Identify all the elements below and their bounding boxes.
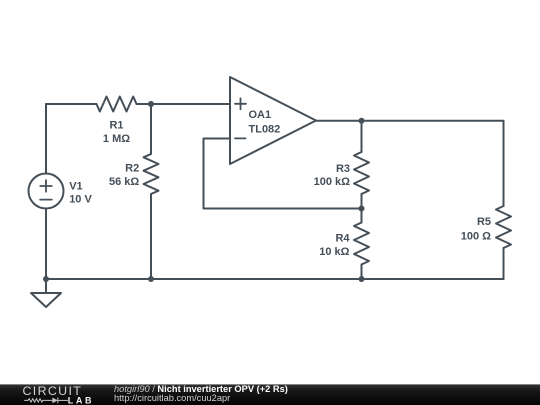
svg-text:R5: R5 — [477, 216, 491, 228]
svg-text:56 kΩ: 56 kΩ — [109, 176, 139, 188]
svg-text:100 Ω: 100 Ω — [461, 230, 491, 242]
svg-text:10 V: 10 V — [69, 194, 92, 206]
svg-text:R4: R4 — [335, 233, 350, 245]
svg-text:R3: R3 — [336, 163, 350, 175]
svg-text:http://circuitlab.com/cuu2apr: http://circuitlab.com/cuu2apr — [114, 393, 230, 403]
svg-text:100 kΩ: 100 kΩ — [314, 176, 351, 188]
svg-text:1 MΩ: 1 MΩ — [103, 133, 130, 145]
svg-text:R2: R2 — [125, 163, 139, 175]
svg-text:TL082: TL082 — [249, 123, 281, 135]
svg-text:LAB: LAB — [68, 395, 94, 405]
svg-text:OA1: OA1 — [249, 109, 272, 121]
svg-text:V1: V1 — [69, 181, 82, 193]
svg-text:10 kΩ: 10 kΩ — [319, 246, 349, 258]
svg-text:R1: R1 — [109, 119, 123, 131]
